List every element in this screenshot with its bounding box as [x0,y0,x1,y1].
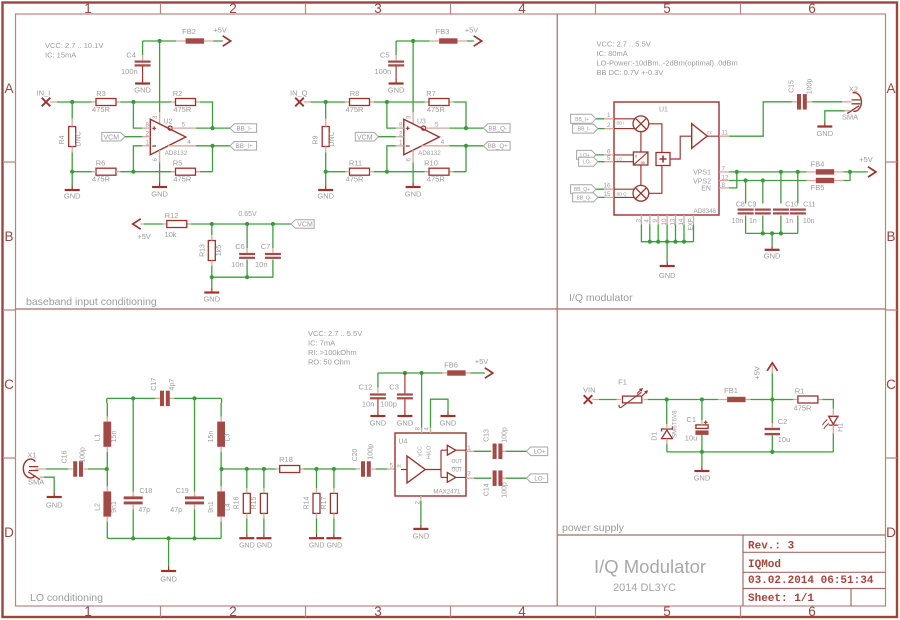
wire X1 ground [44,477,54,492]
svg-text:R2: R2 [173,89,183,98]
capacitor C15 100p [788,79,813,110]
wire R4 [71,102,73,172]
resistor R15 [251,493,268,513]
resistor R17 [321,493,338,513]
junction C10 tap [779,170,783,174]
phase splitter box [633,152,648,165]
wire C7 [212,224,273,277]
ground R17 [326,534,342,550]
wire pin8 Q [387,102,396,128]
wire U4 hi/lo to gnd [430,428,432,433]
wire H1 [822,400,833,452]
svg-text:GND: GND [317,192,334,201]
svg-text:L1: L1 [95,434,102,442]
wire L1 leads [106,417,108,453]
junction bottom pins 2 [656,240,660,244]
capacitor C2 10u [765,417,791,444]
ground caps VPS [764,245,781,260]
ground U4 hi/lo [440,412,457,428]
svg-text:FB2: FB2 [182,27,196,36]
junction gnd tap power [700,450,704,454]
svg-text:10n: 10n [255,260,268,269]
svg-text:BB_I-: BB_I- [236,126,251,133]
wire +5V rail I [143,41,223,112]
flag BB_I- [230,124,257,133]
resistor R6 475R [92,159,116,184]
ground X2 [816,122,833,138]
port IN_Q [290,89,308,107]
column numbers bottom [84,604,816,619]
svg-text:C19: C19 [176,488,189,495]
svg-text:R11: R11 [349,159,362,168]
svg-text:100n: 100n [375,67,392,76]
wire pin stubs rail Q [396,41,467,125]
section divider vertical [556,14,558,606]
svg-text:B: B [886,229,895,244]
svg-text:BB_I-: BB_I- [578,127,591,133]
svg-text:A: A [4,81,13,96]
capacitor C20 100p [352,444,374,477]
svg-text:X1: X1 [27,451,36,460]
svg-text:475R: 475R [794,404,813,413]
flag VCM in [102,132,125,141]
resistor R8 475R [346,89,370,114]
LED H1 [822,416,845,432]
pin number labels U1 left [604,112,611,198]
resistor R18 [279,455,300,473]
svg-text:+5V: +5V [213,26,227,35]
svg-text:6: 6 [406,158,413,162]
svg-text:9: 9 [652,219,659,223]
svg-text:GND: GND [694,473,711,482]
frame column ticks bottom [161,606,741,617]
wire FB1 to R1 [750,399,793,401]
svg-text:D: D [886,525,896,540]
svg-text:C9: C9 [748,201,757,208]
svg-text:1k5: 1k5 [216,245,223,256]
svg-text:VPS1: VPS1 [693,170,711,177]
wire node B to R18 [222,468,276,470]
flag BB_Q- [573,193,598,202]
ground below R13 [203,288,220,303]
resistor R4 DNC [59,127,83,147]
svg-text:100p: 100p [368,444,375,460]
svg-text:47p: 47p [138,507,150,514]
svg-text:14: 14 [678,218,685,225]
junction C2 bottom [770,450,774,454]
junction bottom pins 5 [682,240,686,244]
junction rail Q [411,39,415,43]
svg-text:4: 4 [187,139,191,146]
svg-text:R15: R15 [251,496,258,509]
svg-text:GND: GND [64,192,81,201]
flag LO- [579,157,598,166]
svg-text:C12: C12 [359,382,373,391]
U4 right pin numbers [467,445,471,478]
svg-text:VCC: 2.7 .. 5.5V: VCC: 2.7 .. 5.5V [597,40,651,49]
flag BB_Q- [484,124,511,133]
svg-text:6: 6 [152,158,159,162]
connector X1 SMA [23,451,44,487]
junction bottom pins 4 [673,240,677,244]
ground power supply [694,467,711,483]
wire pin1 Q [387,146,396,172]
svg-text:GND: GND [388,86,405,95]
svg-text:A: A [886,81,895,96]
junction D1 tap [665,397,669,401]
wire C2 [771,400,773,424]
svg-text:GND: GND [659,271,676,280]
svg-text:475R: 475R [427,175,446,184]
pin stubs U1 bottom [641,215,693,225]
ground below opamp U3 [405,183,422,199]
svg-text:100p: 100p [79,447,86,463]
svg-text:1n: 1n [749,218,757,225]
svg-text:RF: RF [707,130,713,135]
U4 internal connections [401,450,466,477]
svg-text:FB3: FB3 [436,27,450,36]
junction out5 Q [464,126,468,130]
svg-text:IC: 80mA: IC: 80mA [597,49,628,58]
svg-text:LO-: LO- [534,476,544,483]
wire pin stubs rail I [143,41,214,125]
svg-text:3: 3 [467,470,471,477]
+5V arrow VCM bias [133,219,151,241]
svg-text:10n: 10n [803,218,815,225]
flag VCM in Q [355,132,378,141]
svg-text:GND: GND [405,189,422,198]
wire R15 [263,469,265,534]
junction node A [105,467,109,471]
svg-text:L2: L2 [95,503,102,511]
svg-text:1n: 1n [785,218,793,225]
frame row ticks right [886,162,898,458]
svg-text:R17: R17 [321,496,328,509]
wire U4 vcc [421,373,423,428]
junction C6 top [245,222,249,226]
capacitor C8 10n [732,201,754,225]
resistor R10 475R [424,159,449,184]
svg-text:47p: 47p [170,507,182,514]
svg-text:C: C [886,377,896,392]
wire R9 [325,102,327,172]
wire pin2 Q [378,136,396,138]
capacitor C9 1n [748,201,771,225]
junction bottom pins 1 [648,240,652,244]
ground C12 [370,412,387,428]
resistor R16 [234,493,251,513]
svg-text:C13: C13 [483,429,490,442]
wire R17 [333,469,335,534]
ferrite bead FB4 [811,159,835,174]
connector X2 SMA [842,84,862,121]
svg-text:IN_Q: IN_Q [290,89,308,98]
svg-text:H1: H1 [838,423,845,432]
pin stubs U1 left [596,119,605,198]
wire out pin4 Q [422,145,450,147]
svg-text:AD8346: AD8346 [694,208,717,215]
svg-text:R10: R10 [424,159,438,168]
ground R16 [239,534,255,550]
svg-text:GND: GND [413,532,430,541]
flag VCM source [291,220,314,229]
svg-text:IN_I: IN_I [37,89,51,98]
svg-text:GND: GND [764,252,781,261]
wire X2 ground [825,111,845,122]
svg-text:9n1: 9n1 [208,501,215,513]
svg-text:BB_Q-: BB_Q- [576,195,591,201]
svg-text:+5V: +5V [475,357,489,366]
svg-text:C4: C4 [126,50,136,59]
svg-text:3: 3 [406,115,413,119]
svg-text:GND: GND [257,543,273,550]
resistor R13 1k5 [200,241,224,261]
junction R9 bottom [324,170,328,174]
wire to GND bias [211,277,213,288]
svg-text:C14: C14 [483,483,490,496]
svg-text:15n: 15n [208,431,215,443]
svg-text:0: 0 [635,154,638,159]
wire power gnd [701,452,703,467]
flag BB_I+ [230,142,257,151]
wire out pin4 [168,145,196,147]
wire U1 bottom pins [641,225,693,262]
svg-text:100p: 100p [380,399,397,408]
svg-text:5: 5 [435,121,439,128]
svg-text:VCC: VCC [418,446,424,457]
svg-text:L3: L3 [224,434,231,442]
svg-text:IC: 15mA: IC: 15mA [45,51,76,60]
flag LO+ out [526,447,547,456]
pin number labels U1 right [722,130,729,189]
wire EN [729,172,737,188]
junction U4 vcc tap [420,371,424,375]
capacitor C14 100p [483,470,508,497]
+5V arrow Q [465,26,482,47]
capacitor C18 47p [124,488,153,514]
svg-text:DNC: DNC [329,131,336,146]
junction bias bottom mid [245,275,249,279]
svg-text:03.02.2014 06:51:34: 03.02.2014 06:51:34 [748,575,874,587]
svg-text:475R: 475R [173,175,192,184]
wire L3 leads [220,417,222,453]
svg-text:R3: R3 [96,89,106,98]
pin number labels U1 bottom [635,218,694,230]
flag BB_Q+ [571,185,596,194]
wire R6 row [92,171,200,173]
resistor R14 [303,493,320,513]
ferrite bead FB2 [182,27,204,44]
svg-text:3: 3 [152,115,159,119]
svg-text:+5V: +5V [753,366,762,380]
junction IN_I node [70,100,74,104]
svg-text:R16: R16 [234,496,241,509]
wire C6 [246,224,248,277]
junction out4 Q [464,144,468,148]
ground R15 [256,534,272,550]
svg-text:FB1: FB1 [724,386,738,395]
row letters left [4,81,14,540]
wire out pin5 Q [426,127,450,129]
junction R17 tap [332,467,336,471]
pin stub X1 [36,469,47,477]
svg-text:4: 4 [644,219,651,223]
svg-text:C7: C7 [261,242,271,251]
junction +5V tap [770,397,774,401]
svg-text:10n: 10n [362,399,375,408]
junction bias bottom left [210,275,214,279]
svg-text:BB I: BB I [617,121,625,126]
svg-text:IC: 7mA: IC: 7mA [308,338,335,347]
svg-text:DNC: DNC [75,131,82,146]
svg-text:VCM: VCM [357,134,373,141]
svg-text:C17: C17 [151,378,158,391]
svg-text:GND: GND [440,418,457,427]
svg-text:GND: GND [203,294,220,303]
ground X1 [46,493,63,510]
svg-text:475R: 475R [346,175,365,184]
svg-text:R8: R8 [350,89,360,98]
capacitor C5 [375,50,405,79]
ferrite bead FB1 [724,386,745,402]
flag BB_I- [573,124,598,133]
svg-text:VIN: VIN [583,385,596,394]
svg-text:Rev.: 3: Rev.: 3 [748,541,795,553]
junction out5 [210,126,214,130]
svg-text:LO-Power:-10dBm..-2dBm(optimal: LO-Power:-10dBm..-2dBm(optimal)..0dBm [597,59,738,68]
pin labels VPS1 VPS2 EN [693,170,711,193]
svg-text:R7: R7 [426,89,436,98]
+5V arrow up [753,363,778,400]
wire C1 [701,400,703,421]
wire out pin5 [172,127,196,129]
svg-text:10k: 10k [164,230,176,239]
svg-text:4: 4 [518,604,526,619]
svg-text:2: 2 [229,604,237,619]
inductor L4 9n1 [208,491,231,516]
capacitor C7 10n [255,242,281,269]
svg-text:8: 8 [414,427,421,431]
capacitor C17 4p7 [151,378,176,406]
svg-text:EXP: EXP [687,218,694,230]
svg-text:3: 3 [374,604,382,619]
junction R11 out [385,170,389,174]
frame row ticks left [3,162,16,458]
flag LO+ [577,150,596,159]
svg-text:IQMod: IQMod [748,559,781,571]
svg-text:LO-: LO- [583,160,592,166]
junction rail I [158,39,162,43]
junction caps gnd tap [770,231,774,235]
ground U1 exposed pad [659,262,676,280]
svg-text:I/Q Modulator: I/Q Modulator [594,556,706,577]
ferrite bead FB6 [444,360,465,375]
svg-text:15n: 15n [111,431,118,443]
svg-text:HI/LO: HI/LO [427,446,433,459]
bottom rail power [667,451,833,453]
junction C8 tap [744,178,748,182]
svg-text:9n1: 9n1 [111,501,118,513]
resistor R3 475R [92,89,116,114]
svg-text:3: 3 [635,219,642,223]
wire opamp U3 pin6 to gnd [412,150,414,163]
svg-text:1: 1 [84,1,92,16]
svg-text:LO conditioning: LO conditioning [30,592,103,604]
info text LO [308,329,362,366]
svg-text:C16: C16 [61,450,68,463]
wire VPS1 rail [729,171,868,173]
wire filter gnd [168,538,170,566]
flag BB_Q+ [484,142,511,151]
U4 output buffer 1 [447,445,456,455]
svg-text:BB_Q-: BB_Q- [488,126,507,133]
wire R13 [211,224,213,277]
svg-text:R12: R12 [165,211,179,220]
wire U4 out1 [466,450,506,452]
mixer I symbol [633,116,649,132]
svg-text:C10: C10 [785,201,798,208]
svg-text:100p: 100p [501,427,508,443]
capacitor C4 [121,50,151,79]
ground C3 [397,412,414,428]
svg-text:RO: 50 Ohm: RO: 50 Ohm [308,357,350,366]
capacitor C10 1n [773,201,798,225]
+5V arrow I [213,26,230,47]
junction R8 out [385,100,389,104]
wire caps to gnd [771,233,773,245]
wire IN_Q row [304,101,454,103]
junction R3 out [131,100,135,104]
svg-text:R18: R18 [279,455,293,464]
junction C1 tap [700,397,704,401]
junction C9 tap [761,178,765,182]
wire RF out [719,102,812,136]
wire R14 [316,469,318,534]
svg-text:4: 4 [518,1,526,16]
svg-text:EN: EN [701,186,711,193]
svg-text:GND: GND [46,501,63,510]
svg-text:GND: GND [816,129,833,138]
wire to GND R9 [325,172,327,186]
junction C18 top [131,396,135,400]
wire C20 to U4 [376,468,387,470]
svg-text:475R: 475R [346,105,365,114]
svg-text:U3: U3 [417,119,426,126]
wire R18 to C20 [304,468,356,470]
svg-text:C6: C6 [235,242,245,251]
junction C19 bottom [192,536,196,540]
capacitor C3 100p [380,373,413,412]
svg-text:2: 2 [229,1,237,16]
flag LO- out [526,474,547,483]
wire U4 out2 [466,477,506,479]
svg-text:R5: R5 [173,159,183,168]
svg-text:AD8132: AD8132 [165,150,188,157]
svg-text:5: 5 [663,1,671,16]
section divider horizontal [16,308,886,310]
svg-text:5: 5 [663,604,671,619]
svg-text:C20: C20 [352,448,359,461]
svg-text:U4: U4 [399,439,408,446]
svg-text:B: B [4,229,13,244]
capacitor C11 10n [790,201,816,225]
wire C19 [194,398,196,538]
U4 output buffer 2 [447,473,456,483]
pin stubs VPS [719,172,844,188]
title block doc title [594,556,706,594]
resistor R9 DNC [312,127,336,147]
svg-text:RI: >100kOhm: RI: >100kOhm [308,348,357,357]
